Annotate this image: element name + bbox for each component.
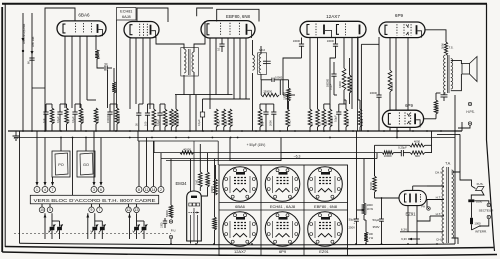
wire 6BA6 top feed — [45, 8, 75, 131]
arrow num 3 — [93, 131, 96, 186]
circled 2 — [158, 187, 164, 193]
svg-text:50000: 50000 — [166, 210, 169, 217]
wire 15000 b4 bot — [359, 127, 361, 131]
wire 1MΩ b3 bot — [223, 127, 225, 131]
junction bus x32 — [31, 130, 33, 132]
svg-text:H.T.: H.T. — [436, 212, 442, 216]
label 6P9 — [395, 13, 404, 18]
tube V1 6BA6 — [57, 21, 106, 36]
wire 6BA6 pin5 — [95, 35, 97, 50]
wire ECH81 pinD — [149, 38, 151, 109]
svg-text:6,3V: 6,3V — [401, 228, 407, 232]
svg-text:50000: 50000 — [350, 84, 353, 91]
junction bus x266 — [265, 130, 267, 132]
svg-text:1MΩ: 1MΩ — [324, 120, 328, 126]
wire antenna 2 — [31, 13, 33, 131]
wire EBF80 pin3 — [227, 38, 229, 95]
wire heater box — [230, 138, 281, 161]
wire 12AX7 g1 — [283, 58, 302, 95]
wire T1 top right — [194, 21, 205, 52]
tube V6 6P9 low — [382, 110, 423, 127]
wire 20000 b2 bot — [153, 127, 155, 131]
junction bus2 x330 — [329, 137, 331, 139]
wire 750000 b4 bot — [329, 127, 331, 131]
svg-text:1 W: 1 W — [369, 236, 374, 240]
resistor 1M — [50, 108, 56, 124]
svg-text:P.U.: P.U. — [171, 229, 177, 233]
svg-text:EZ91: EZ91 — [319, 249, 329, 254]
label MF2 — [259, 48, 265, 52]
capacitor 0,1µF b2 — [156, 104, 163, 131]
resistor 20000 em — [213, 159, 218, 244]
wire 15000 b4 bot — [345, 127, 347, 131]
svg-text:14: 14 — [152, 188, 156, 192]
svg-text:15000: 15000 — [346, 118, 350, 126]
svg-text:12AX7: 12AX7 — [326, 14, 340, 19]
label -6,3 — [294, 154, 301, 158]
resistor 1M em a — [196, 144, 203, 191]
capacitor 50uF 350V — [372, 210, 383, 244]
wire 6,3V line — [400, 228, 443, 232]
capacitor 0,25uF — [393, 145, 410, 156]
junction bus2 x61 — [60, 137, 62, 139]
junction chassis x437 — [436, 243, 438, 245]
svg-text:1MΩ: 1MΩ — [196, 180, 199, 185]
svg-text:6,3V: 6,3V — [401, 237, 407, 241]
junction chassis x356 — [355, 243, 357, 245]
junction bus2 x212.4 — [212, 137, 214, 139]
svg-text:350V: 350V — [372, 225, 379, 229]
wire fb down — [374, 145, 376, 176]
wire 47000 bottom — [95, 124, 97, 131]
node antenna 1 — [22, 50, 24, 52]
arrow num 1 — [36, 131, 39, 186]
capacitor 0,5µF b4 — [333, 104, 341, 131]
svg-text:SECTEUR: SECTEUR — [479, 208, 495, 212]
resistor 9000 — [424, 93, 441, 119]
wire em34 top feed — [191, 141, 198, 244]
label 500000 wire — [326, 78, 329, 87]
wire EBF80 pin1 — [209, 38, 211, 110]
wire ECH81 pinC — [142, 38, 144, 104]
capacitor 10000 mf — [261, 76, 283, 95]
capacitor 1000 pu — [161, 218, 168, 228]
wire pt tap1 — [427, 185, 444, 187]
wire 6P9 pinA — [395, 37, 397, 110]
wire 6P9low pins — [390, 127, 410, 137]
svg-text:125: 125 — [318, 121, 322, 126]
wire x176 long — [175, 95, 177, 109]
svg-text:0,1: 0,1 — [217, 47, 221, 51]
svg-text:20000: 20000 — [211, 186, 214, 193]
wire 6BA6 pin4 — [87, 36, 96, 100]
circled 7 — [50, 187, 56, 193]
junction bus2 x152 — [151, 137, 153, 139]
svg-text:1MΩ: 1MΩ — [288, 120, 292, 126]
svg-text:H.T.: H.T. — [436, 196, 442, 200]
svg-text:GO: GO — [83, 163, 89, 167]
wire 6,3 arrow — [401, 237, 420, 241]
arrow num 7 — [51, 177, 54, 186]
resistor 50000 ps — [369, 176, 377, 192]
resistor 1MΩ b3 — [222, 109, 228, 127]
label T.A. — [445, 162, 451, 166]
svg-text:6P9: 6P9 — [395, 13, 404, 18]
base 6BA6 — [223, 167, 258, 202]
tube V2 ECH81 — [124, 22, 159, 38]
base EBF80 — [308, 167, 343, 202]
wire mid boxes — [72, 138, 74, 196]
label H.PS. — [466, 110, 474, 114]
dashed line tuner — [14, 233, 171, 235]
label EM34 — [176, 181, 188, 186]
label Ant. ext. — [31, 36, 35, 47]
wire stair2 — [153, 141, 155, 153]
wire 12AX7 p2 — [343, 38, 345, 69]
svg-text:300000: 300000 — [117, 114, 121, 123]
circled 3 — [91, 187, 97, 193]
resistor 5000 TS — [440, 42, 453, 55]
IF transformer T1 box — [181, 48, 199, 77]
terminal HPS top — [468, 102, 471, 105]
junction chassis x214 — [213, 243, 215, 245]
svg-text:INTERR.: INTERR. — [475, 230, 487, 234]
wire EBF80 outer — [197, 8, 213, 16]
junction bus x324 — [323, 130, 325, 132]
wire mid h1 — [175, 94, 233, 96]
wire 12AX7 p1 — [309, 37, 311, 109]
svg-text:1000: 1000 — [161, 222, 164, 228]
junction bus x96 — [95, 130, 97, 132]
junction bus x310 — [309, 130, 311, 132]
wire 12AX7 k1 — [317, 38, 319, 109]
svg-text:20 000: 20 000 — [215, 221, 218, 229]
resistor 1000 10W — [362, 159, 373, 220]
label EBF80, 6N8 — [226, 14, 250, 19]
junction chassis x366 — [365, 243, 367, 245]
trimmer group 2 — [86, 213, 105, 239]
wire ant link — [32, 87, 45, 89]
label H.T. b — [417, 212, 444, 221]
svg-text:10000: 10000 — [293, 39, 301, 43]
circled 10 — [39, 207, 45, 213]
switch INTERR — [472, 224, 488, 233]
svg-text:300000: 300000 — [390, 82, 394, 91]
terminal secteur 2 — [487, 215, 490, 218]
terminal HPS bottom — [468, 122, 471, 125]
resistor 100 1W — [364, 220, 373, 245]
wire GO top — [85, 138, 87, 152]
wire 12AX7 k2 — [351, 37, 353, 109]
tube V8 EM34 — [187, 191, 202, 241]
label H.T. a — [427, 196, 444, 209]
svg-text:1M: 1M — [52, 119, 56, 123]
svg-text:15000 1W: 15000 1W — [176, 114, 180, 126]
svg-text:1000: 1000 — [476, 200, 483, 204]
resistor 10000 fb — [382, 151, 393, 158]
svg-text:10 W: 10 W — [367, 207, 374, 211]
arrow num 4 — [44, 138, 47, 187]
svg-text:C: C — [48, 230, 51, 232]
svg-text:6AJ8: 6AJ8 — [122, 15, 131, 19]
wire HPS bottom — [458, 125, 470, 128]
capacitor 1nF — [42, 104, 49, 131]
circled 9 — [89, 207, 95, 213]
junction bus x256 — [255, 130, 257, 132]
junction chassis x381.5 — [381, 243, 383, 245]
capacitor 50uF 250V — [348, 131, 358, 245]
label base 6P9 — [279, 249, 287, 254]
wire x114 — [113, 68, 115, 131]
wire 15000 1W b2 bot — [175, 127, 177, 131]
svg-text:12: 12 — [127, 208, 131, 212]
capacitor 20000 6P9 — [370, 37, 382, 131]
junction bus x23 — [22, 130, 24, 132]
wire 40000 bottom — [80, 124, 82, 131]
svg-text:FUS.: FUS. — [477, 182, 484, 186]
wire pt right bottom — [452, 238, 459, 244]
circled 1 — [34, 187, 40, 193]
circled 11 — [144, 187, 150, 193]
junction bus x384 — [383, 130, 385, 132]
resistor 47000 — [94, 108, 100, 124]
svg-text:ECH81 , 6AJ8: ECH81 , 6AJ8 — [270, 204, 296, 209]
label P.U. — [171, 229, 177, 233]
wire 500000 b4 bot — [259, 127, 261, 131]
label CH.V — [435, 171, 442, 175]
bus line 5 — [161, 158, 377, 160]
svg-text:50µF: 50µF — [373, 218, 380, 222]
svg-text:13: 13 — [135, 208, 139, 212]
svg-text:6P9: 6P9 — [279, 249, 287, 254]
circled 13 — [134, 207, 140, 213]
label 6P9 low — [405, 103, 413, 108]
svg-text:6BA6: 6BA6 — [235, 204, 246, 209]
page bottom edge — [2, 252, 497, 256]
terminal PU 2 — [169, 235, 172, 244]
wire EBF80 loop — [217, 9, 259, 21]
resistor 600 fb — [410, 151, 425, 158]
circled 7b — [97, 207, 103, 213]
resistor 20000 tb — [211, 165, 218, 195]
wire x455 vert — [454, 95, 456, 244]
junction bus x176 — [175, 130, 177, 132]
svg-text:7: 7 — [52, 188, 54, 192]
junction bus x353 — [352, 130, 354, 132]
chassis bus — [20, 243, 456, 245]
svg-text:EBF80, 6N8: EBF80, 6N8 — [226, 14, 250, 19]
label base 12AX7 — [234, 249, 247, 254]
svg-text:C: C — [91, 230, 94, 232]
svg-text:1MΩ: 1MΩ — [224, 120, 228, 126]
wire 6P9 pinB — [407, 37, 409, 110]
wire 50 b4 bot — [309, 127, 311, 131]
resistor 50000 pu — [166, 159, 173, 218]
svg-text:EM34: EM34 — [176, 181, 188, 186]
wire x357 long — [357, 37, 359, 131]
wire 125 b4 bot — [317, 127, 319, 131]
frame border bottom — [5, 247, 494, 249]
label base ECH81 — [270, 204, 296, 209]
wire fb right — [425, 131, 432, 153]
svg-text:PO: PO — [58, 163, 64, 167]
wire stack link — [364, 219, 366, 221]
svg-text:CH.L: CH.L — [436, 238, 443, 242]
tube V5 6P9 — [379, 22, 425, 38]
wire box drop — [42, 204, 137, 207]
arrow antenna 1 — [22, 38, 25, 42]
wire ECH81 pinA — [129, 38, 131, 110]
junction bus x190 — [189, 130, 191, 132]
bus line 1 — [8, 130, 462, 132]
junction bus x368 — [367, 130, 369, 132]
wire b2 links — [139, 104, 165, 109]
label Ant. incorporee — [22, 23, 26, 44]
svg-text:0,5µF: 0,5µF — [333, 115, 337, 122]
wire x107 down — [107, 70, 109, 108]
wire nums mid — [139, 138, 161, 187]
wire stair1 — [137, 131, 139, 141]
junction bus2 x237.6 — [237, 137, 239, 139]
wire 10000 1W b2 bot — [170, 127, 172, 131]
wire 1MΩ b4 bot — [287, 127, 289, 131]
junction bus x427 — [426, 130, 428, 132]
svg-text:0,1µF: 0,1µF — [197, 119, 201, 126]
svg-text:10: 10 — [40, 208, 44, 212]
svg-text:11: 11 — [145, 188, 149, 192]
label base 6BA6 — [235, 204, 246, 209]
speaker — [462, 57, 477, 82]
capacitor 10000 a — [293, 38, 304, 59]
resistor 15000 b4 — [358, 109, 364, 127]
wire 1MΩ b4 bot — [323, 127, 325, 131]
base 12AX7 — [223, 212, 258, 247]
svg-text:4000: 4000 — [414, 140, 421, 144]
svg-text:0,1µF: 0,1µF — [56, 116, 60, 123]
capacitor 0,1 mid — [329, 62, 337, 95]
wire ez91 left pin — [381, 197, 383, 210]
resistor 20000 b2 — [152, 109, 158, 127]
resistor 50000 mid — [348, 58, 353, 104]
resistor 100000 v — [280, 80, 290, 109]
junction chassis x171 — [170, 243, 172, 245]
resistor 1K — [112, 82, 118, 93]
svg-text:100: 100 — [143, 121, 147, 126]
capacitor 0,1µF — [71, 104, 78, 131]
resistor 10000 1W b2 — [170, 109, 176, 127]
svg-text:9000: 9000 — [436, 106, 440, 112]
svg-text:MF2: MF2 — [259, 48, 265, 52]
label base EZ91 — [319, 249, 329, 254]
svg-text:7K: 7K — [67, 120, 71, 123]
capacitor 50 b2 — [135, 104, 142, 131]
beam arrows 6P9 — [406, 24, 409, 35]
wire ps x374 — [375, 159, 400, 198]
tube V7 EZ91 — [399, 190, 426, 205]
junction bus x152 — [151, 130, 153, 132]
resistor 40000 h — [180, 147, 194, 154]
svg-text:4: 4 — [44, 188, 46, 192]
svg-text:1nF: 1nF — [42, 118, 46, 123]
resistor 500 — [95, 50, 100, 59]
capacitor 2000 b4 — [268, 104, 276, 131]
wire fuse in — [472, 186, 476, 189]
label CH.L — [436, 238, 443, 242]
terminal FA — [421, 205, 430, 211]
circled 4 — [42, 187, 48, 193]
capacitor T2 — [263, 61, 271, 63]
svg-text:−6,3: −6,3 — [294, 154, 301, 158]
svg-text:6BA6: 6BA6 — [78, 13, 90, 18]
junction bus x61 — [60, 130, 62, 132]
box GO — [77, 151, 95, 177]
wire 52 top — [52, 104, 117, 108]
svg-text:1K: 1K — [114, 89, 118, 92]
resistor 1M em b — [201, 153, 211, 196]
trimmer group 1 — [44, 213, 63, 239]
svg-text:0,25µF: 0,25µF — [398, 145, 407, 149]
wire EBF80 pin2 — [215, 38, 217, 95]
wire cap to grid — [108, 67, 113, 69]
svg-text:EZ91: EZ91 — [405, 212, 416, 217]
resistor 250000 — [261, 80, 279, 97]
junction bus x242 — [241, 130, 243, 132]
wire antenna 1 — [22, 13, 24, 131]
wire 6P9 anode right — [425, 30, 446, 42]
wire EBF80 pin6 — [245, 38, 247, 100]
wire link caps — [46, 103, 117, 105]
junction bus x295 — [294, 130, 296, 132]
svg-text:150000: 150000 — [106, 114, 110, 123]
tube V4 12AX7 — [300, 21, 366, 37]
output transformer T3 — [444, 55, 453, 93]
wire 1MΩ b3 bot — [215, 127, 217, 131]
resistor 40000 mid — [339, 68, 346, 104]
beam arrows 6P9 low — [407, 113, 410, 124]
capacitor OT bottom — [441, 93, 448, 101]
terminal PU 1 — [169, 220, 172, 223]
box PO — [52, 151, 70, 177]
resistor 0,5MΩ b3 — [228, 109, 234, 127]
wire 300000 bottom — [116, 124, 118, 131]
table inner lines — [219, 165, 348, 256]
frame border right — [487, 4, 495, 251]
junction chassis x196 — [195, 243, 197, 245]
wire T2 bottom — [253, 73, 262, 131]
capacitor 10000 b — [327, 38, 338, 58]
svg-text:100000: 100000 — [284, 91, 287, 100]
wire fuse to r — [471, 191, 484, 200]
resistor 1MΩ b4 — [322, 109, 328, 127]
label VERS BLOC — [34, 198, 156, 203]
svg-text:8: 8 — [138, 188, 140, 192]
svg-text:600: 600 — [415, 154, 420, 158]
wire OT to speaker — [451, 60, 462, 90]
wire x19 down — [19, 131, 21, 243]
junction chassis x408 — [407, 243, 409, 245]
frame border left — [4, 4, 6, 247]
wire r to sect — [474, 201, 489, 203]
wire 12AX7 g2 — [330, 58, 336, 109]
bus line 3 — [138, 141, 218, 165]
wire ECH81 pinB — [135, 38, 137, 104]
wire x116 down — [116, 20, 118, 108]
svg-text:FA: FA — [421, 205, 425, 209]
base 6P9 — [265, 212, 300, 247]
svg-text:40000: 40000 — [81, 115, 85, 123]
circled 5 — [47, 207, 53, 213]
wire 1000 cap link — [357, 209, 365, 211]
